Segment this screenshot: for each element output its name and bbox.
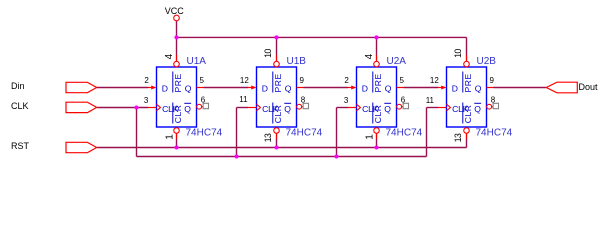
svg-text:CLR: CLR	[173, 104, 183, 123]
svg-text:9: 9	[490, 76, 495, 85]
svg-text:3: 3	[344, 96, 349, 105]
wire RST riser to U2A CLR pin	[376, 139, 378, 148]
svg-text:Q: Q	[185, 84, 192, 94]
svg-text:74HC74: 74HC74	[476, 128, 513, 139]
input port CLK	[11, 101, 97, 113]
svg-text:8: 8	[491, 96, 496, 105]
svg-text:4: 4	[164, 53, 175, 59]
svg-text:Din: Din	[11, 81, 25, 91]
svg-text:U2B: U2B	[477, 56, 497, 67]
junction VCC rail	[374, 35, 378, 39]
svg-text:74HC74: 74HC74	[186, 128, 223, 139]
wire U1B Q to U2A D	[304, 87, 349, 89]
wire CLK drop	[136, 108, 138, 157]
svg-text:12: 12	[430, 76, 439, 85]
svg-text:3: 3	[144, 96, 149, 105]
wire RST riser to U1A CLR pin	[176, 139, 178, 148]
svg-text:PRE: PRE	[373, 73, 383, 92]
wire RST riser to U1B CLR pin	[276, 139, 278, 148]
junction VCC rail	[174, 35, 178, 39]
svg-text:10: 10	[453, 49, 463, 58]
wire U2B Q to Dout port	[494, 87, 547, 89]
svg-text:D: D	[262, 84, 268, 94]
svg-text:74HC74: 74HC74	[286, 128, 323, 139]
svg-text:12: 12	[240, 76, 249, 85]
svg-text:D: D	[452, 84, 458, 94]
svg-text:Q: Q	[384, 104, 391, 114]
junction RST rail	[374, 145, 378, 149]
wire VCC rail	[177, 36, 467, 38]
svg-text:2: 2	[144, 76, 149, 85]
svg-text:Q: Q	[475, 84, 482, 94]
flip-flop U1B 74HC74	[239, 49, 322, 143]
svg-text:1: 1	[365, 134, 376, 140]
svg-text:13: 13	[453, 133, 463, 142]
svg-text:5: 5	[200, 76, 205, 85]
junction CLK branch at port wire	[134, 105, 138, 109]
svg-text:RST: RST	[11, 141, 30, 151]
svg-text:PRE: PRE	[273, 73, 283, 92]
svg-text:D: D	[162, 84, 168, 94]
svg-text:PRE: PRE	[173, 73, 183, 92]
svg-text:6: 6	[401, 96, 406, 105]
svg-text:6: 6	[201, 96, 206, 105]
wire RST rail	[97, 147, 466, 149]
svg-text:CLR: CLR	[273, 104, 283, 123]
junction CLK rail at U2A riser	[334, 154, 338, 158]
wire Din port to U1A D pin	[97, 87, 148, 89]
svg-text:1: 1	[165, 134, 176, 140]
wire VCC drop to U1A PRE pin	[176, 37, 178, 55]
svg-text:U1A: U1A	[187, 56, 207, 67]
svg-text:Q: Q	[385, 84, 392, 94]
svg-text:VCC: VCC	[165, 6, 185, 16]
junction RST rail	[274, 145, 278, 149]
svg-text:D: D	[362, 84, 368, 94]
output port Dout	[546, 82, 598, 93]
flip-flop U1A 74HC74	[144, 53, 223, 139]
junction CLK rail at U1B riser	[234, 154, 238, 158]
svg-text:2: 2	[344, 76, 349, 85]
svg-text:Q: Q	[284, 104, 291, 114]
wire CLK riser to U2A CLK	[336, 108, 338, 157]
svg-text:CLK: CLK	[11, 101, 29, 111]
wire U2A Q to U2B D	[404, 87, 439, 89]
wire CLK rail	[137, 156, 427, 158]
svg-text:Q: Q	[184, 104, 191, 114]
svg-text:CLR: CLR	[373, 104, 383, 123]
power symbol VCC	[165, 6, 185, 21]
junction RST rail	[174, 145, 178, 149]
wire CLK riser to U1B CLK	[236, 108, 238, 157]
wire VCC drop to U1B PRE pin	[276, 37, 278, 55]
svg-text:11: 11	[239, 95, 248, 104]
svg-text:U2A: U2A	[387, 56, 407, 67]
svg-text:9: 9	[300, 76, 305, 85]
svg-text:10: 10	[263, 49, 273, 58]
wire RST riser to U2B CLR pin	[466, 139, 468, 148]
input port RST	[11, 141, 97, 153]
svg-text:Q: Q	[285, 84, 292, 94]
wire CLK port to U1A CLK pin	[97, 107, 148, 109]
svg-text:Dout: Dout	[579, 82, 599, 92]
wire VCC symbol to rail	[176, 21, 178, 38]
svg-text:5: 5	[400, 76, 405, 85]
svg-text:13: 13	[263, 133, 273, 142]
wire VCC drop to U2A PRE pin	[376, 37, 378, 55]
svg-text:11: 11	[426, 96, 435, 105]
svg-text:8: 8	[301, 96, 306, 105]
svg-text:PRE: PRE	[463, 73, 473, 92]
flip-flop U2A 74HC74	[344, 53, 423, 139]
wire U1A Q to U1B D	[204, 87, 249, 89]
flip-flop U2B 74HC74	[426, 49, 513, 143]
input port Din	[11, 81, 97, 93]
svg-text:CLR: CLR	[463, 104, 473, 123]
svg-text:4: 4	[364, 53, 375, 59]
junction VCC rail	[274, 35, 278, 39]
wire CLK riser to U2B CLK	[426, 108, 428, 157]
svg-text:U1B: U1B	[287, 56, 307, 67]
svg-text:74HC74: 74HC74	[386, 128, 423, 139]
wire VCC drop to U2B PRE pin	[466, 37, 468, 55]
svg-text:Q: Q	[474, 104, 481, 114]
